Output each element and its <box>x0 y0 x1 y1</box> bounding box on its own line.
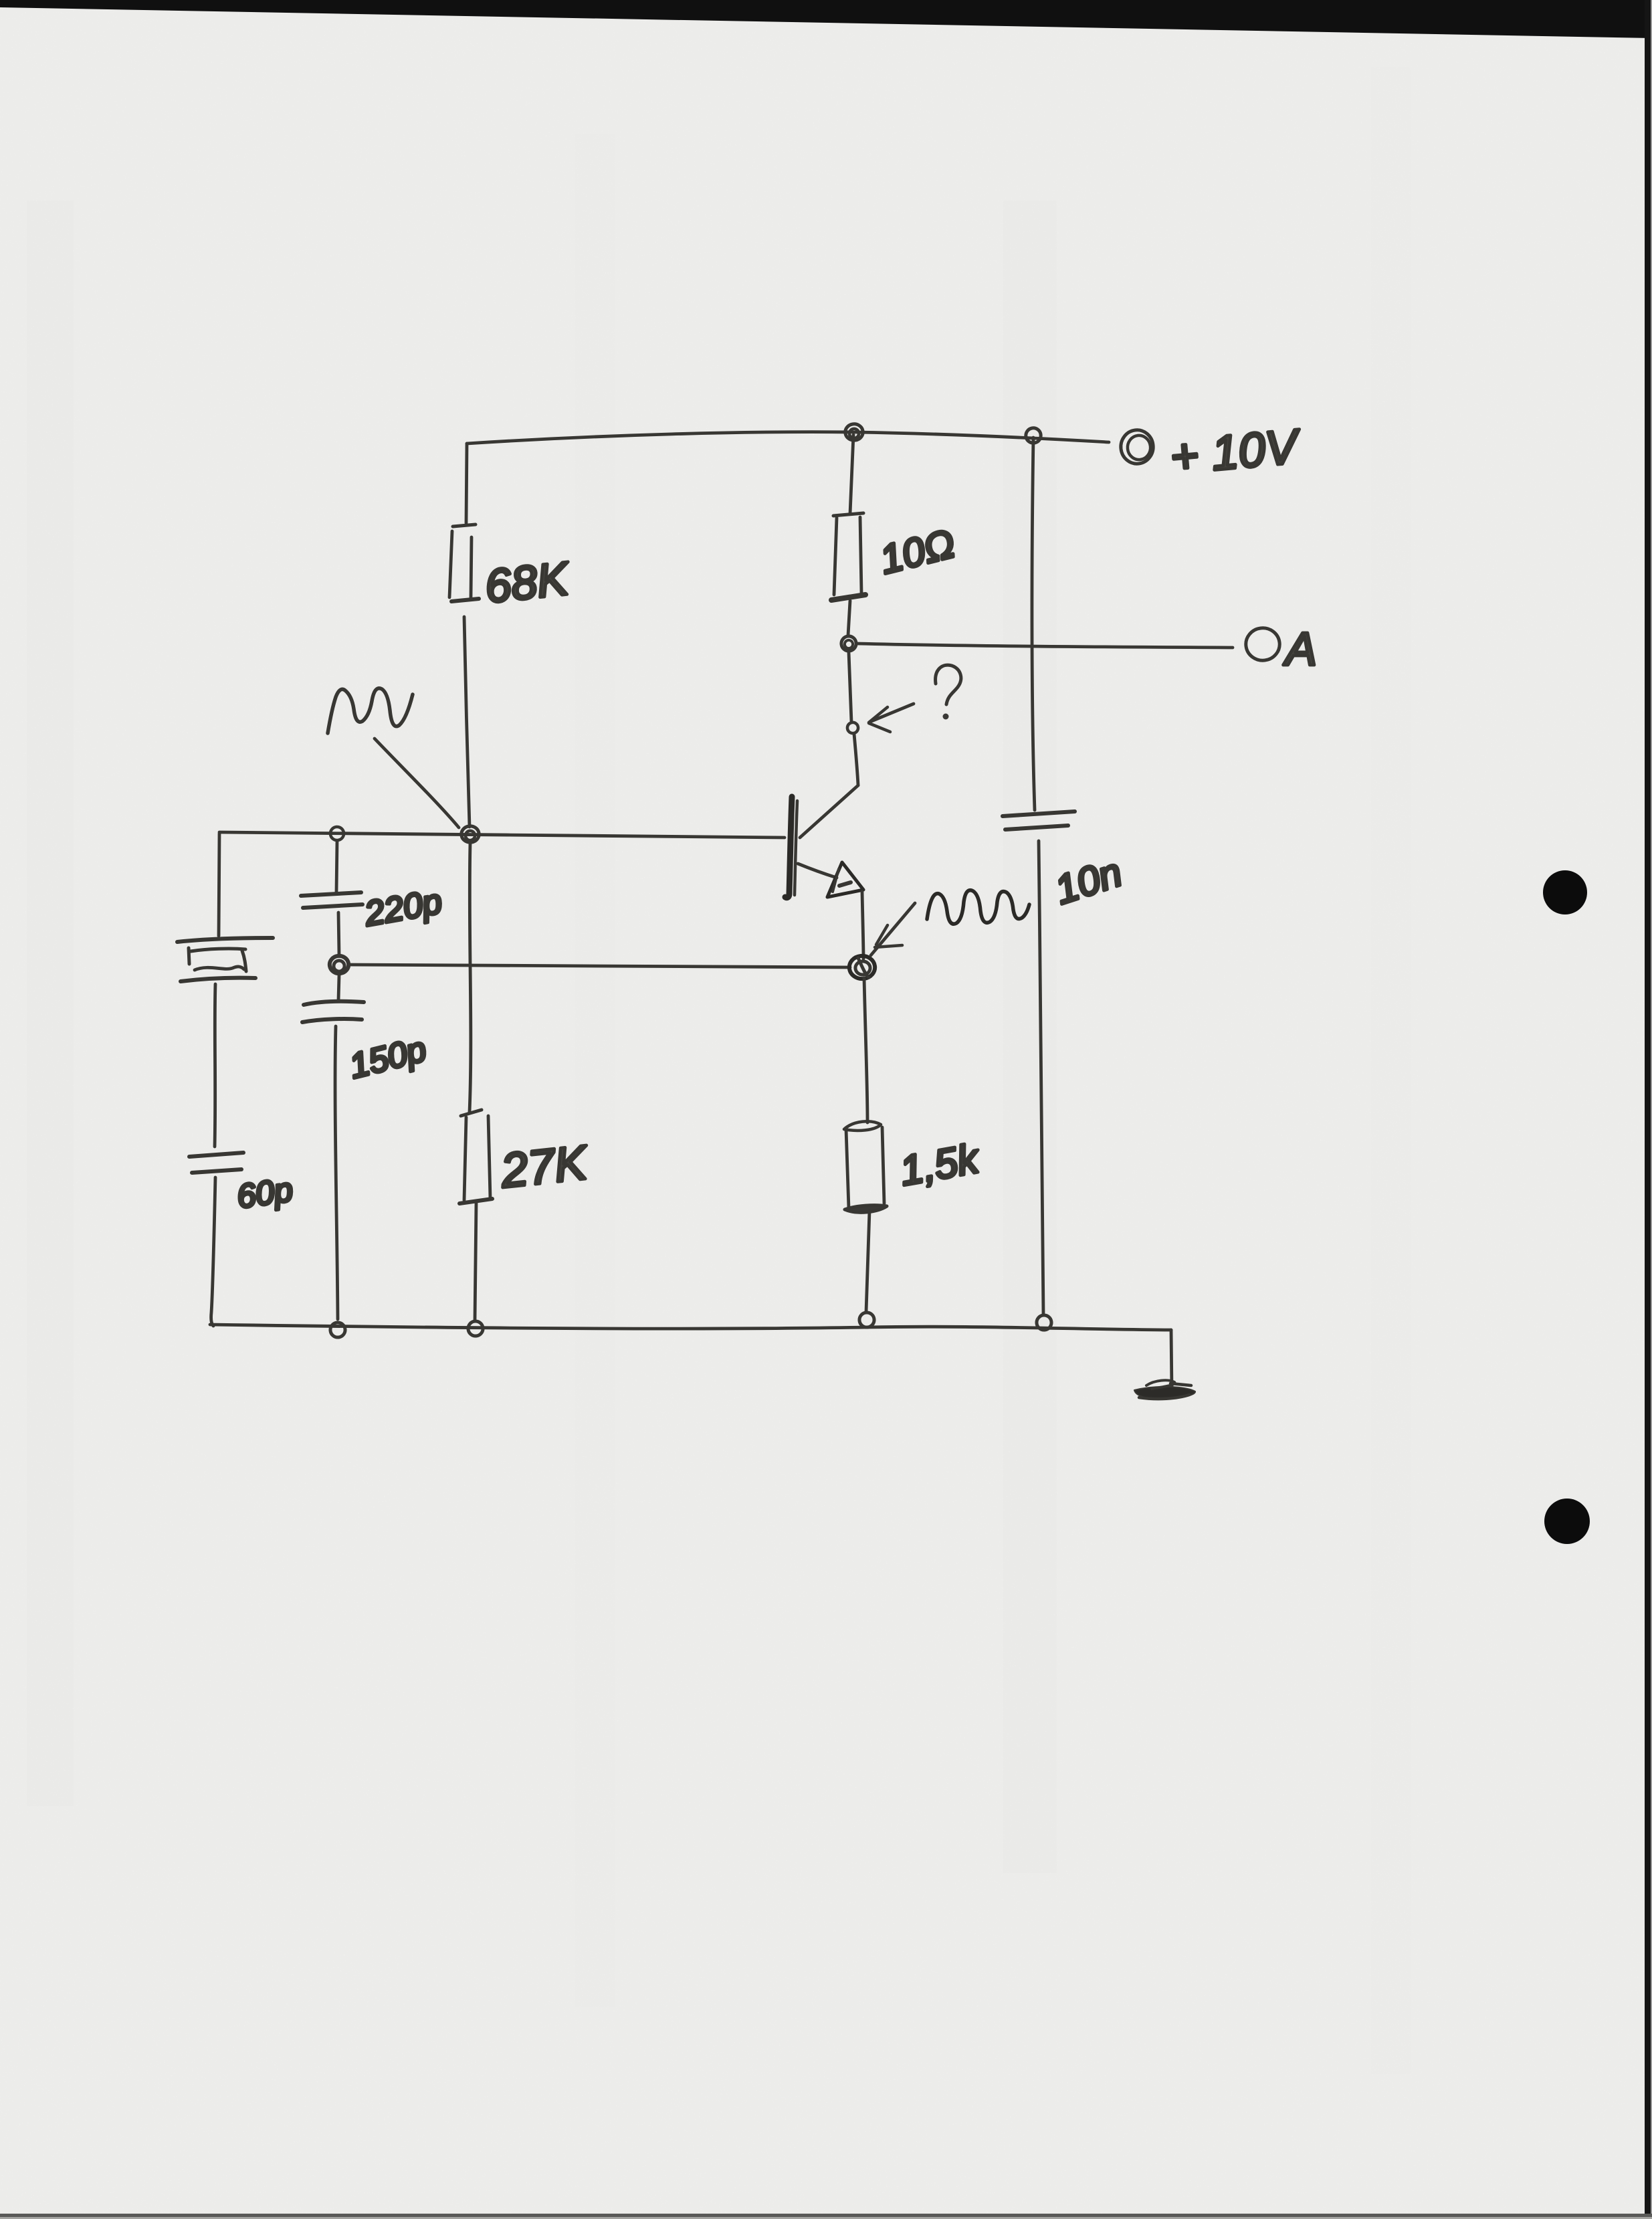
wire: emitter node horizontal to left node <box>348 965 850 967</box>
junction: rail / left cap branch <box>330 1323 345 1337</box>
wire: rail to R2 top <box>850 435 853 514</box>
wire: OA output <box>857 644 1233 648</box>
wire: R4 bottom to ground rail <box>866 1211 869 1312</box>
hole punch dots <box>1543 870 1587 914</box>
transistor Q1 emitter stroke <box>798 864 837 878</box>
junction: C1/C2/emitter wire node <box>330 956 348 973</box>
wire: emitter node down to R4 <box>864 978 867 1123</box>
junction: base wire / 68K-27K line <box>461 826 479 842</box>
capacitor C5 10n plates <box>1003 811 1075 816</box>
annotation ? near collector <box>936 665 961 704</box>
capacitor C1 220p plates <box>301 892 361 896</box>
wire: C2 down to ground rail <box>335 1026 338 1319</box>
resistor R2 10R <box>833 513 863 516</box>
node: small circle on collector wire <box>847 722 858 733</box>
transistor Q1 base bar <box>785 797 792 898</box>
transistor Q1 collector stroke <box>800 785 858 838</box>
pointer line from squiggle to base node <box>375 739 459 828</box>
capacitor C2 150p plates <box>304 1001 364 1005</box>
wire: R1 bottom to base node <box>464 617 470 827</box>
wire: 10n branch from rail down <box>1032 438 1035 810</box>
resistor R1 68K <box>453 524 476 526</box>
svg-text:60p: 60p <box>235 1171 295 1216</box>
junction on +10V rail at 10R branch <box>845 424 863 440</box>
wire: trimmer to C4 <box>215 984 215 1147</box>
junction on +10V rail at 10n branch <box>1026 428 1041 443</box>
wire: circle to collector stroke <box>854 734 858 785</box>
wire: rail to ground symbol <box>1171 1330 1172 1390</box>
junction: rail / 10n <box>1037 1315 1051 1330</box>
resistor R4 1.5k <box>844 1121 881 1131</box>
wire: far-left vertical from base wire <box>219 834 219 936</box>
resistor R3 27K <box>461 1110 482 1116</box>
svg-text:27K: 27K <box>498 1136 591 1198</box>
wire: ground rail <box>210 1325 1171 1330</box>
junction: rail / 27K <box>468 1321 483 1336</box>
svg-text:A: A <box>1283 623 1317 675</box>
wire: node to C2 150p <box>338 975 339 1000</box>
capacitor C4 60p plates <box>189 1153 243 1157</box>
junction: rail / 1.5k <box>859 1313 874 1327</box>
arrow to collector circle <box>871 704 914 721</box>
wire: C5 down to ground rail <box>1039 841 1043 1315</box>
junction: base wire / 220p branch <box>330 827 344 840</box>
svg-text:+ 10V: + 10V <box>1168 419 1303 484</box>
pointer arrow from squiggle to emitter node <box>871 903 915 955</box>
capacitor C3 trimmer top plate <box>177 938 273 942</box>
svg-text:68K: 68K <box>482 552 573 613</box>
terminal O of +10V <box>1121 430 1153 464</box>
capacitor C3 trimmer body <box>189 948 189 964</box>
wire: OA node down to collector <box>849 652 851 722</box>
wire: R2 bottom to OA junction <box>848 601 850 636</box>
wire: C4 to ground rail <box>211 1177 215 1326</box>
wire: C1 to middle junction <box>338 912 339 955</box>
wire: 220p branch from base junction <box>336 841 337 892</box>
wire: base wire (left node to transistor base) <box>219 832 785 838</box>
wire: base node down to R3 27K <box>470 843 471 1112</box>
sine squiggle annotation near emitter <box>927 890 1029 924</box>
transistor Q1 emitter arrow <box>827 862 863 897</box>
ground <box>1134 1387 1195 1400</box>
wire: +10V top rail <box>467 432 1109 444</box>
wire: rail to R1 top <box>466 444 467 523</box>
junction: collector / OA node <box>841 636 856 651</box>
terminal O of OA <box>1246 628 1279 660</box>
capacitor C3 trimmer bottom plate <box>181 978 255 981</box>
junction: emitter node <box>849 956 875 979</box>
wire: R3 bottom to ground rail <box>475 1203 476 1321</box>
wire: emitter to emitter node <box>862 892 863 959</box>
sine squiggle annotation near base <box>328 688 413 733</box>
